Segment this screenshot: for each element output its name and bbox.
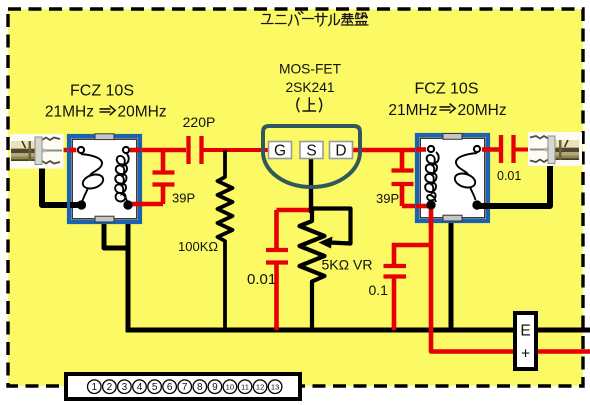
battery terminal box BT1 E/+ [515, 313, 536, 369]
double arrow glyphs for 21MHz=>20MHz [100, 104, 456, 116]
svg-text:1: 1 [92, 382, 98, 393]
capacitor C1 220P [189, 136, 269, 164]
svg-text:0.01: 0.01 [247, 271, 276, 288]
svg-text:4: 4 [137, 382, 143, 393]
VR wiper loop and arrow [312, 209, 351, 244]
tab bottom [443, 215, 462, 221]
red wire: D to right transformer [353, 148, 428, 153]
transformer T1 FCZ 10S coil [69, 134, 140, 222]
secondary coil spring [115, 153, 129, 203]
tab bottom [95, 216, 114, 222]
svg-text:21MHz: 21MHz [45, 104, 94, 121]
capacitor C5 0.1 [384, 245, 430, 330]
wire stubs inside transformer boxes [69, 150, 492, 229]
wire: right transformer tab to bus [449, 220, 454, 330]
wire: right connector ground [479, 162, 550, 206]
svg-text:D: D [335, 143, 346, 160]
svg-text:5KΩ VR: 5KΩ VR [322, 257, 373, 273]
variable resistor VR1 5K [300, 209, 325, 331]
red wire: transformer2 bottom to + rail [431, 206, 590, 352]
capacitor C2 39P left [130, 150, 175, 204]
red wire: secondary to 220P [126, 148, 186, 153]
tab top [443, 134, 462, 140]
svg-text:11: 11 [241, 382, 249, 391]
svg-text:S: S [306, 143, 316, 160]
svg-text:2SK241: 2SK241 [285, 80, 334, 95]
svg-text:21MHz: 21MHz [388, 102, 437, 119]
wire: left transformer bottom tab jog [104, 221, 128, 248]
terminals [428, 146, 434, 152]
svg-text:39P: 39P [172, 191, 195, 206]
svg-text:8: 8 [197, 382, 203, 393]
red wire: connector pin to primary [56, 148, 80, 153]
capacitor C3 0.01 left [266, 210, 288, 330]
svg-text:MOS-FET: MOS-FET [279, 62, 342, 77]
svg-text:6: 6 [167, 382, 173, 393]
svg-text:9: 9 [212, 382, 218, 393]
primary coil scribble [81, 154, 102, 175]
（上） drawn [297, 98, 322, 112]
secondary coil scribble [456, 153, 477, 174]
red wire secondary2 to 0.01 right [477, 147, 499, 152]
resistor R1 100K [218, 150, 233, 330]
svg-text:FCZ 10S: FCZ 10S [414, 81, 478, 98]
wire: ground bus bottom [126, 206, 131, 332]
svg-text:2: 2 [107, 382, 113, 393]
svg-text:20MHz: 20MHz [458, 102, 507, 119]
svg-text:10: 10 [226, 382, 234, 391]
svg-text:5: 5 [152, 382, 158, 393]
svg-text:+: + [521, 346, 530, 363]
title ユニバーサル基盤 (drawn strokes) [262, 12, 369, 27]
tab top [95, 134, 114, 140]
svg-text:E: E [520, 323, 530, 340]
svg-text:13: 13 [271, 382, 279, 391]
connector J2 RCA jack photo right [528, 132, 582, 166]
G S D pin boxes [269, 142, 353, 160]
svg-text:0.01: 0.01 [497, 169, 521, 183]
svg-text:100KΩ: 100KΩ [178, 239, 218, 254]
svg-text:G: G [274, 143, 286, 160]
svg-text:12: 12 [256, 382, 264, 391]
wire: left connector ground [42, 164, 80, 205]
capacitor C6 0.01 right (series) [501, 135, 540, 163]
capacitor C4 39P right [392, 150, 430, 206]
svg-text:220P: 220P [183, 114, 216, 130]
connector J1 RCA jack photo left [10, 134, 64, 169]
wire: S lead of Q1 [309, 157, 313, 213]
pin-number strip 1-13 [66, 374, 300, 399]
terminals [78, 147, 84, 153]
primary coil spring (many loops) [425, 152, 439, 202]
transistor Q1 2SK241 MOS-FET outline [263, 126, 360, 187]
wire bus horizontal [126, 328, 590, 333]
svg-text:39P: 39P [376, 191, 399, 206]
svg-text:FCZ 10S: FCZ 10S [70, 83, 134, 100]
svg-text:20MHz: 20MHz [118, 104, 167, 121]
svg-text:7: 7 [182, 382, 188, 393]
svg-text:0.1: 0.1 [369, 282, 389, 298]
red wire: S junction to 0.01 [277, 208, 312, 213]
svg-text:3: 3 [122, 382, 128, 393]
transformer T2 FCZ 10S coil [417, 134, 488, 222]
